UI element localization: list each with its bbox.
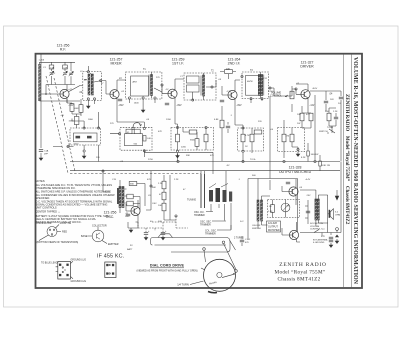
svg-text:10V: 10V bbox=[158, 221, 162, 223]
svg-text:OSCILLATOR: OSCILLATOR bbox=[37, 222, 52, 225]
svg-text:8.2K: 8.2K bbox=[301, 157, 306, 159]
svg-text:2700: 2700 bbox=[268, 91, 274, 93]
svg-text:22K: 22K bbox=[226, 69, 231, 71]
svg-text:COLLECTOR: COLLECTOR bbox=[92, 225, 107, 228]
svg-text:2ND I.F.: 2ND I.F. bbox=[228, 62, 241, 66]
svg-text:TRIMMER: TRIMMER bbox=[194, 215, 205, 217]
svg-text:C1A: C1A bbox=[44, 150, 49, 153]
svg-text:GROUND LUG: GROUND LUG bbox=[71, 260, 87, 262]
svg-text:-8.6V: -8.6V bbox=[312, 88, 318, 90]
svg-text:DRIVER: DRIVER bbox=[300, 65, 314, 69]
svg-text:6.8K: 6.8K bbox=[214, 119, 219, 121]
svg-text:16V: 16V bbox=[330, 99, 334, 101]
svg-text:1/4 TURN: 1/4 TURN bbox=[177, 283, 189, 287]
svg-text:10K: 10K bbox=[297, 114, 301, 116]
svg-text:ALL SWITCHES ARE S.P. UNLESS O: ALL SWITCHES ARE S.P. UNLESS OTHERWISE N… bbox=[36, 190, 112, 194]
svg-text:LOOP TIE: LOOP TIE bbox=[60, 222, 71, 225]
svg-text:SWITCH: SWITCH bbox=[252, 228, 261, 230]
svg-text:TO BLUE LEAD: TO BLUE LEAD bbox=[41, 262, 58, 265]
svg-text:-.09V: -.09V bbox=[118, 105, 124, 107]
svg-text:1ST I.F.: 1ST I.F. bbox=[172, 62, 184, 66]
svg-text:VOLUME R-16, MOST-OFTEN-NEEDED: VOLUME R-16, MOST-OFTEN-NEEDED 1960 RADI… bbox=[352, 57, 358, 285]
svg-text:-1V: -1V bbox=[165, 89, 169, 91]
svg-text:47K: 47K bbox=[321, 236, 325, 238]
svg-text:ZENITH RADIO: ZENITH RADIO bbox=[279, 262, 326, 268]
svg-text:UNIT CONTROLS: UNIT CONTROLS bbox=[36, 206, 57, 210]
svg-text:56K: 56K bbox=[130, 184, 134, 186]
svg-text:3.9K 1W: 3.9K 1W bbox=[322, 165, 331, 167]
svg-text:46ZW: 46ZW bbox=[247, 81, 253, 83]
svg-text:GROUND LUG: GROUND LUG bbox=[71, 281, 87, 283]
svg-text:10V: 10V bbox=[125, 216, 129, 218]
svg-text:1200: 1200 bbox=[166, 119, 172, 121]
svg-text:OSC. SEC.: OSC. SEC. bbox=[200, 222, 212, 224]
svg-text:-1.2V: -1.2V bbox=[226, 91, 232, 93]
svg-text:ON-OFF: ON-OFF bbox=[252, 225, 261, 227]
svg-text:EMITTER: EMITTER bbox=[108, 243, 119, 246]
svg-text:NOTES:: NOTES: bbox=[36, 179, 46, 183]
svg-text:C1A: C1A bbox=[50, 66, 55, 69]
svg-text:BATT: BATT bbox=[127, 248, 133, 251]
svg-text:SPECIFIED.: SPECIFIED. bbox=[36, 196, 51, 200]
svg-text:-.11V: -.11V bbox=[309, 105, 315, 107]
svg-text:5600: 5600 bbox=[74, 144, 80, 146]
svg-text:IF 455 KC.: IF 455 KC. bbox=[97, 254, 124, 260]
svg-text:MIXER: MIXER bbox=[110, 62, 122, 66]
svg-text:OSC. R.F.: OSC. R.F. bbox=[194, 212, 205, 214]
svg-text:TUNING: TUNING bbox=[187, 199, 196, 202]
svg-text:Chassis 8MT41Z2: Chassis 8MT41Z2 bbox=[278, 277, 321, 283]
svg-text:OSC: OSC bbox=[152, 203, 157, 205]
svg-text:CONTROL S-1: CONTROL S-1 bbox=[310, 229, 325, 231]
svg-text:TONE: TONE bbox=[327, 127, 334, 129]
svg-text:(VIEWED AS FROM FRONT WITH GAN: (VIEWED AS FROM FRONT WITH GANG FULLY OP… bbox=[136, 270, 197, 273]
svg-text:MATCHED: MATCHED bbox=[268, 229, 280, 232]
svg-text:RED: RED bbox=[62, 231, 67, 234]
svg-text:56K: 56K bbox=[152, 187, 156, 189]
svg-text:2200: 2200 bbox=[181, 147, 187, 149]
svg-text:1500: 1500 bbox=[134, 103, 140, 105]
svg-text:-4.4V: -4.4V bbox=[305, 179, 311, 181]
svg-text:BASE: BASE bbox=[81, 235, 88, 238]
svg-text:-.09V: -.09V bbox=[176, 105, 182, 107]
svg-text:COL. OSC.: COL. OSC. bbox=[205, 231, 217, 233]
svg-text:SOCKET ON: SOCKET ON bbox=[310, 223, 323, 225]
svg-text:-.6V: -.6V bbox=[60, 115, 65, 117]
svg-text:-.02V: -.02V bbox=[68, 105, 74, 107]
svg-text:(BOTTOM VIEWS OF TRANSISTORS): (BOTTOM VIEWS OF TRANSISTORS) bbox=[37, 241, 79, 244]
svg-text:OHM: OHM bbox=[335, 215, 340, 217]
svg-text:-.09V: -.09V bbox=[236, 105, 242, 107]
svg-text:-3V: -3V bbox=[226, 165, 230, 167]
svg-text:VOLUME: VOLUME bbox=[310, 226, 320, 228]
svg-text:560 1W: 560 1W bbox=[311, 154, 319, 156]
svg-text:OTHERWISE SPECIFIED ON R.F.: OTHERWISE SPECIFIED ON R.F. bbox=[36, 186, 76, 190]
svg-text:TRIMMER: TRIMMER bbox=[205, 234, 216, 236]
svg-text:TO B-: TO B- bbox=[250, 159, 256, 161]
svg-text:CONTROL: CONTROL bbox=[270, 95, 282, 98]
svg-text:C1B: C1B bbox=[64, 67, 69, 69]
svg-text:OUTPUT MATCHED: OUTPUT MATCHED bbox=[279, 170, 312, 174]
svg-text:C 2.2: C 2.2 bbox=[245, 239, 251, 241]
svg-text:DIAL CORD DRIVE: DIAL CORD DRIVE bbox=[150, 264, 185, 268]
svg-text:R.F.: R.F. bbox=[60, 48, 66, 52]
svg-text:EXT ANTENNA: EXT ANTENNA bbox=[313, 239, 328, 242]
svg-text:1800: 1800 bbox=[88, 119, 94, 121]
svg-text:TRIMMER: TRIMMER bbox=[200, 225, 211, 227]
svg-text:2 TURNS: 2 TURNS bbox=[234, 238, 244, 240]
svg-text:2.2K: 2.2K bbox=[174, 179, 179, 181]
svg-text:47K: 47K bbox=[158, 131, 162, 133]
svg-text:.25V: .25V bbox=[306, 195, 311, 197]
svg-text:SWITCH: SWITCH bbox=[319, 131, 328, 133]
svg-text:& GROUND: & GROUND bbox=[313, 242, 325, 244]
svg-text:1.5K: 1.5K bbox=[268, 211, 273, 213]
svg-text:CENTER TAPPED ↔: CENTER TAPPED ↔ bbox=[36, 210, 61, 214]
svg-text:5600: 5600 bbox=[190, 140, 196, 142]
svg-text:5.6K: 5.6K bbox=[147, 138, 152, 140]
svg-text:2700: 2700 bbox=[148, 159, 154, 161]
svg-text:Model “Royal 755M”: Model “Royal 755M” bbox=[275, 269, 326, 276]
svg-text:1-206: 1-206 bbox=[39, 60, 45, 62]
svg-text:2.2K: 2.2K bbox=[158, 183, 163, 185]
svg-text:39K: 39K bbox=[186, 155, 190, 157]
svg-text:ANT: ANT bbox=[133, 81, 138, 84]
svg-text:2.2K: 2.2K bbox=[333, 111, 338, 113]
svg-text:10K: 10K bbox=[158, 205, 162, 207]
svg-text:100K: 100K bbox=[74, 108, 80, 110]
svg-text:2PF: 2PF bbox=[44, 154, 49, 156]
svg-text:4.7K: 4.7K bbox=[245, 135, 250, 137]
svg-text:ZENITH RADIO Model “Royal 7: ZENITH RADIO Model “Royal 755M” Chassis … bbox=[344, 94, 350, 225]
